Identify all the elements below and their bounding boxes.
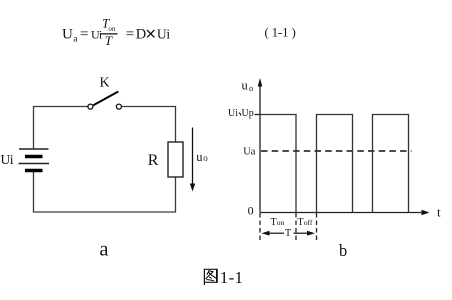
svg-text:0: 0	[248, 204, 254, 218]
battery Ui plates	[19, 149, 50, 171]
svg-text:o: o	[249, 83, 253, 93]
svg-text:t: t	[437, 205, 441, 220]
waveform pulse 2	[317, 115, 353, 213]
switch K blade	[93, 92, 118, 106]
svg-text:( 1-1 ): ( 1-1 )	[265, 26, 296, 40]
label K (switch)	[100, 76, 110, 91]
label Ton	[271, 217, 285, 228]
dimension arrow T (right half)	[294, 231, 316, 236]
label R (resistor)	[148, 152, 159, 169]
waveform pulse 1	[260, 115, 296, 213]
wire: circuit top-right segment and right side down to resistor	[122, 107, 176, 143]
svg-text:1-1: 1-1	[220, 268, 244, 287]
svg-text:Ui: Ui	[1, 152, 14, 167]
svg-text:b: b	[339, 241, 347, 260]
svg-text:R: R	[148, 152, 159, 169]
label uo (axis)	[242, 79, 254, 94]
svg-text:=: =	[80, 27, 88, 43]
svg-text:o: o	[203, 153, 208, 163]
label Toff	[298, 217, 313, 228]
svg-text:T: T	[298, 217, 304, 228]
svg-text:U: U	[62, 27, 73, 43]
dashed line at Ua level	[261, 150, 412, 152]
svg-text:Ua: Ua	[243, 147, 256, 158]
svg-text:a: a	[73, 35, 78, 45]
dashed guide at t=Ton	[295, 213, 297, 243]
axis t (horizontal axis of graph b)	[260, 210, 430, 215]
wire: circuit bottom loop from battery minus to resistor bottom	[34, 172, 176, 212]
waveform pulse 3	[373, 115, 409, 213]
dashed guide at t=T	[316, 213, 318, 243]
label Ua	[243, 147, 256, 158]
svg-text:a: a	[100, 238, 109, 260]
svg-text:T: T	[271, 217, 277, 228]
tick at Ui,Up level	[255, 114, 261, 116]
wire: circuit top-left segment	[34, 107, 89, 150]
resistor R body	[168, 142, 183, 177]
equation number (1-1)	[265, 26, 296, 40]
label b (sub-figure b)	[339, 241, 347, 260]
switch K contacts	[88, 104, 122, 109]
axis uo (vertical axis of graph b)	[258, 78, 263, 213]
label T (period)	[285, 228, 291, 239]
svg-text:Ui: Ui	[157, 27, 170, 42]
label a (sub-figure a)	[100, 238, 109, 260]
label 0 (origin)	[248, 204, 254, 218]
svg-text:Ui: Ui	[228, 108, 238, 119]
label Ui (battery)	[1, 152, 14, 167]
svg-text:=: =	[126, 27, 134, 43]
caption text 1-1	[220, 268, 244, 287]
svg-text:on: on	[108, 25, 116, 33]
svg-text:K: K	[100, 76, 110, 91]
svg-text:D: D	[136, 27, 146, 43]
dimension arrow T (left half)	[262, 231, 285, 236]
svg-text:T: T	[105, 33, 113, 48]
caption glyph: Chinese character tu (figure) drawn as paths	[204, 269, 217, 285]
label t (axis)	[437, 205, 441, 220]
svg-text:T: T	[285, 228, 291, 239]
dashed guide at t=0	[259, 213, 261, 243]
svg-text:Up: Up	[242, 108, 254, 119]
svg-text:on: on	[277, 218, 285, 227]
arrow uo (output voltage arrow)	[190, 128, 195, 192]
svg-text:u: u	[196, 150, 203, 164]
label uo (circuit)	[196, 150, 208, 164]
svg-text:off: off	[304, 218, 313, 227]
label Ui,Up	[228, 108, 254, 119]
svg-text:u: u	[242, 79, 249, 93]
equation 1-1: Ua = Ui Ton/T = D x Ui	[62, 15, 170, 48]
